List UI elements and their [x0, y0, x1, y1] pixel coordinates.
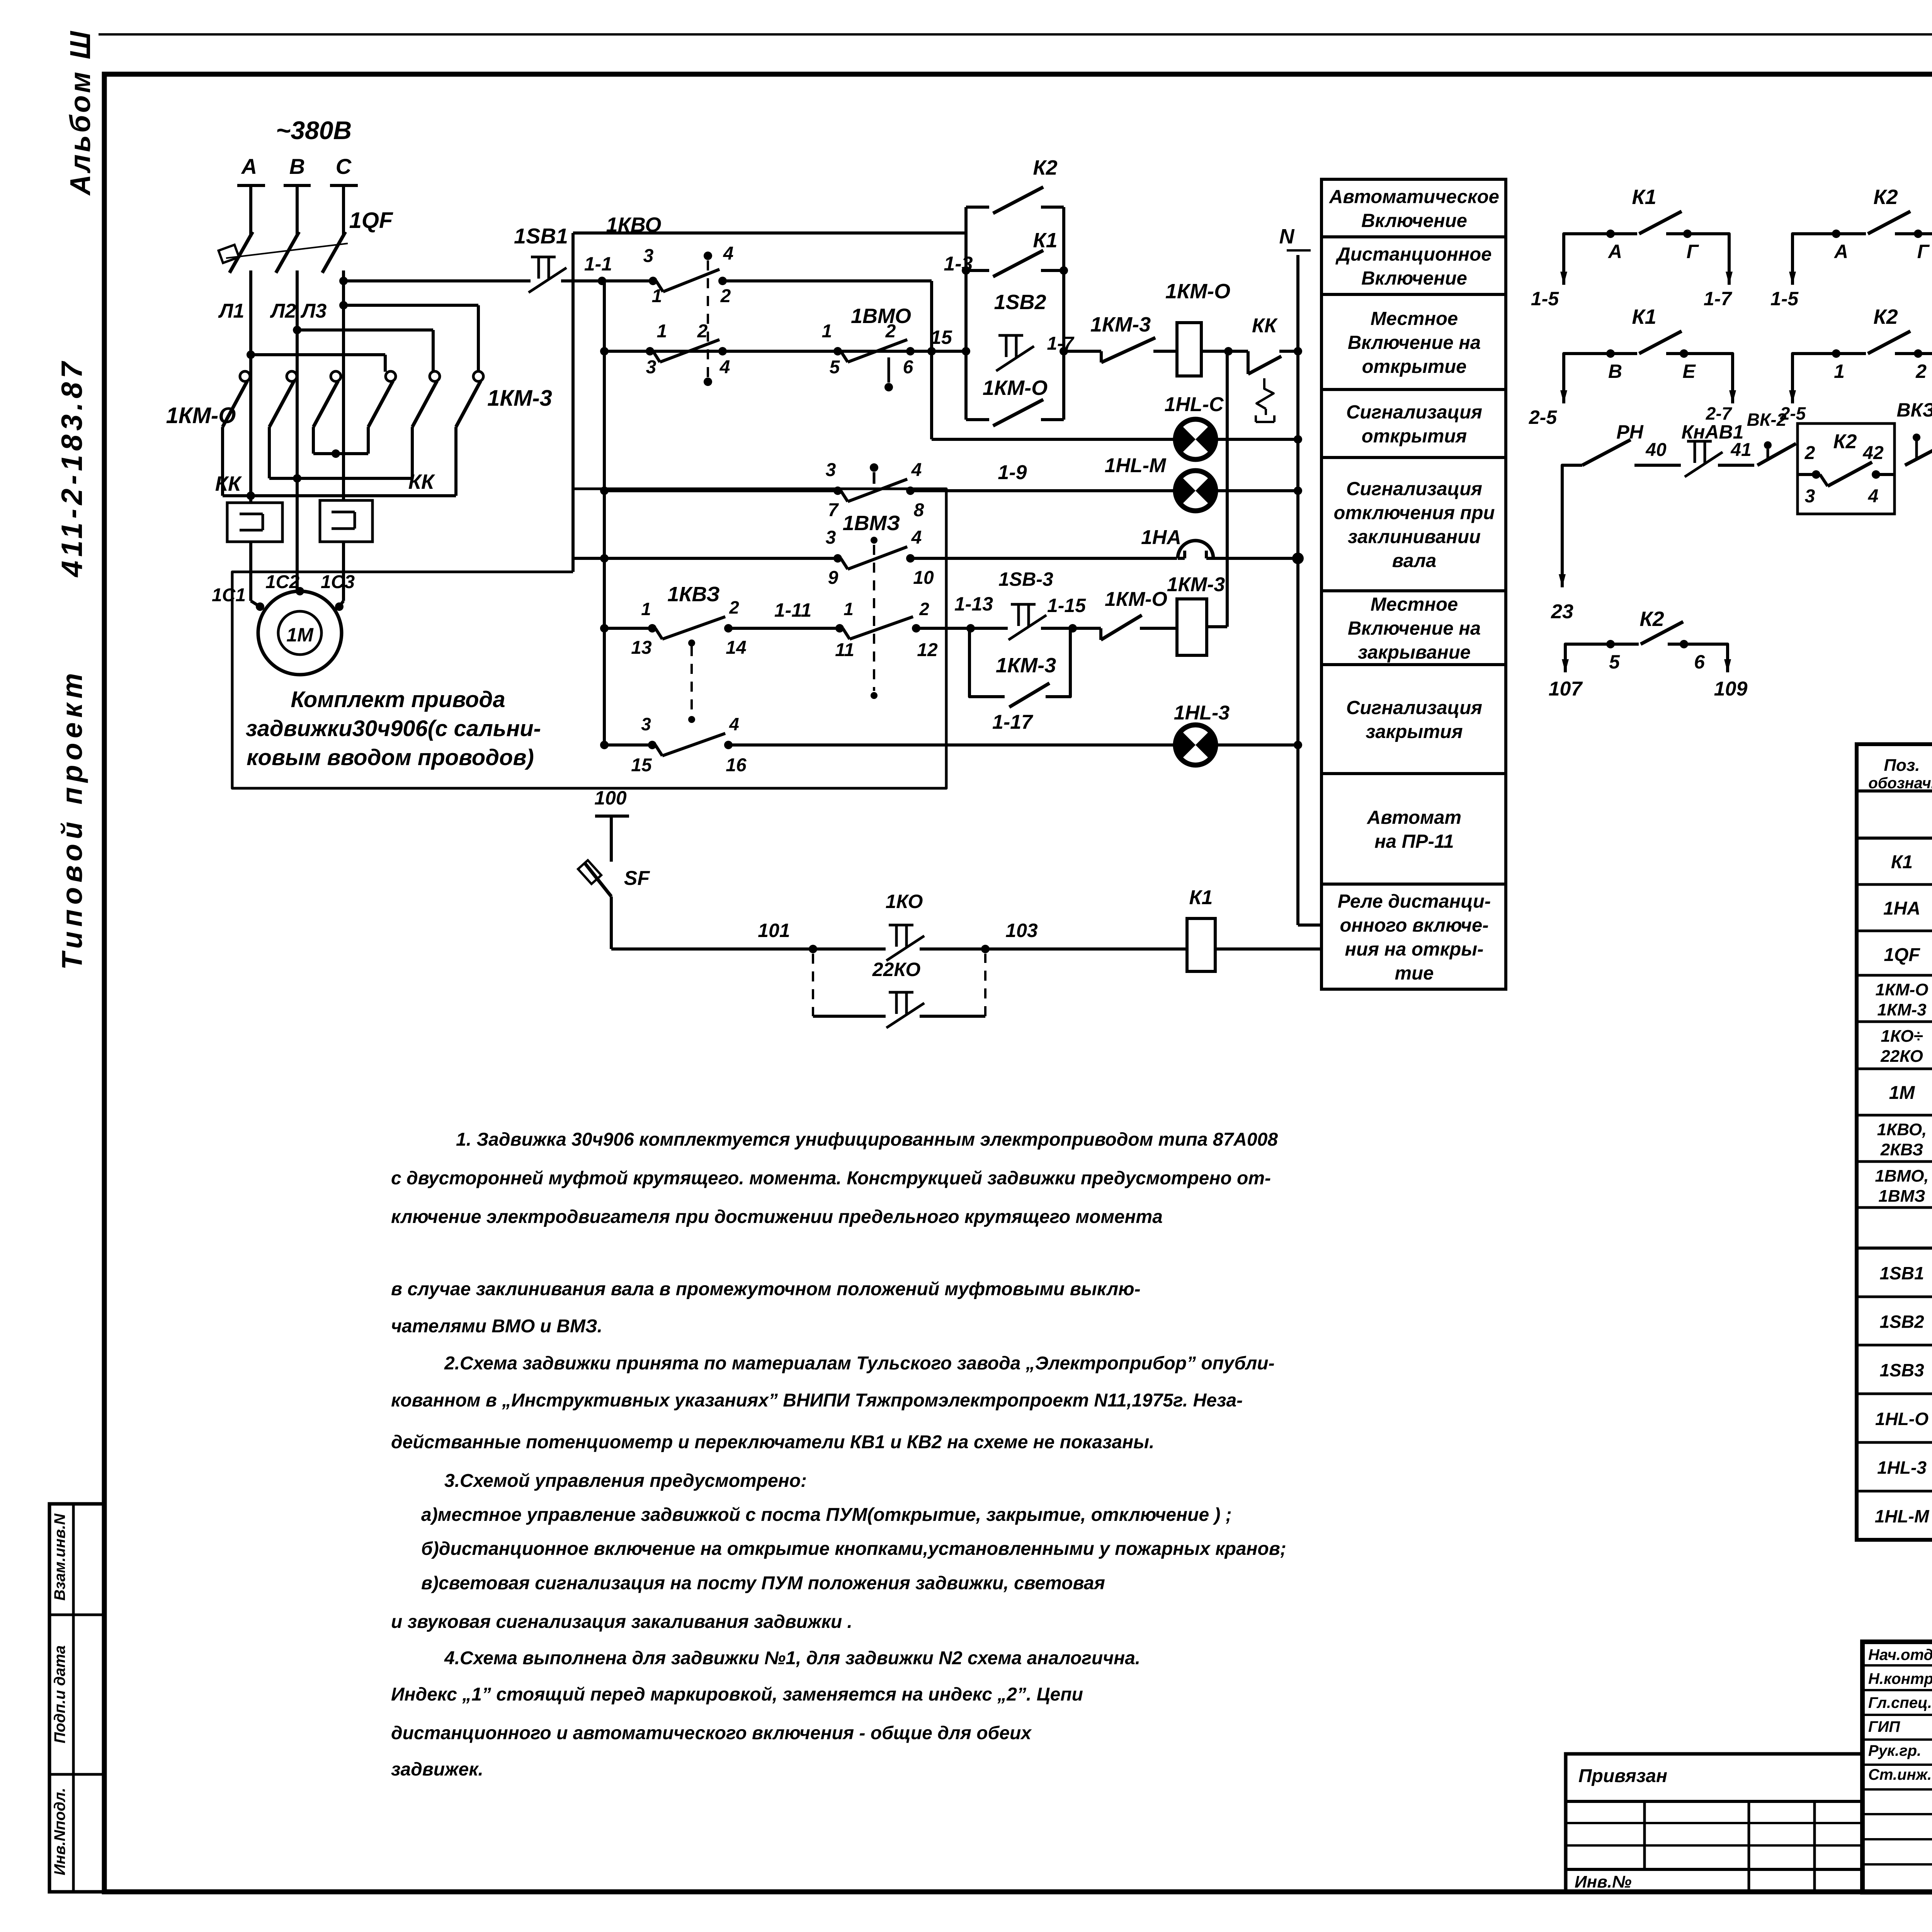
- element row К1: [1857, 883, 1932, 886]
- svg-text:23: 23: [1551, 600, 1573, 623]
- title block main frame: [1862, 1642, 1932, 1892]
- svg-text:Автомат: Автомат: [1367, 807, 1461, 828]
- element row 1ВМО,/1ВМЗ: [1857, 1206, 1932, 1209]
- svg-text:Взам.инв.N: Взам.инв.N: [51, 1513, 68, 1600]
- function column outer gutter: [1320, 179, 1323, 989]
- svg-text:Сигнализация: Сигнализация: [1346, 697, 1482, 718]
- bell 1HA: [1178, 541, 1213, 558]
- function box 7: Сигнализация закрытия: [1321, 665, 1506, 774]
- svg-text:1-5: 1-5: [1770, 288, 1799, 310]
- svg-text:К2: К2: [1033, 156, 1057, 179]
- svg-text:1М: 1М: [1889, 1083, 1915, 1103]
- svg-text:1КМ-О: 1КМ-О: [1875, 980, 1928, 999]
- svg-text:Включение на: Включение на: [1348, 332, 1481, 353]
- svg-text:411-2-183.87: 411-2-183.87: [56, 358, 88, 578]
- svg-text:1КМ-О: 1КМ-О: [1105, 588, 1167, 611]
- svg-text:101: 101: [758, 920, 790, 941]
- svg-text:2-7: 2-7: [1706, 403, 1733, 423]
- function box 4: Сигнализация открытия: [1321, 389, 1506, 457]
- svg-text:1С2: 1С2: [265, 572, 299, 592]
- svg-text:1-13: 1-13: [954, 593, 993, 615]
- control row 3 wire 1-9: [604, 489, 838, 492]
- svg-text:1ВМО: 1ВМО: [851, 304, 911, 328]
- svg-text:1HL-С: 1HL-С: [1164, 393, 1224, 416]
- svg-text:1КО: 1КО: [886, 891, 923, 912]
- svg-text:1HL-О: 1HL-О: [1875, 1409, 1929, 1429]
- fragment box K2 42: [1798, 423, 1895, 514]
- svg-text:13: 13: [631, 638, 652, 658]
- svg-text:3: 3: [1805, 486, 1815, 507]
- svg-text:Инв.Nподл.: Инв.Nподл.: [51, 1788, 68, 1876]
- svg-text:1: 1: [641, 599, 651, 619]
- svg-text:1SB3: 1SB3: [1879, 1360, 1924, 1380]
- phase crossover wire C: [344, 304, 478, 307]
- svg-text:1: 1: [652, 286, 662, 306]
- limit switch contact 1KVO 1-2: [646, 347, 654, 355]
- svg-text:2КВЗ: 2КВЗ: [1880, 1140, 1923, 1159]
- function box 8: Автомат на ПР-11: [1321, 774, 1506, 884]
- svg-text:Сигнализация: Сигнализация: [1346, 402, 1482, 423]
- svg-text:на ПР-11: на ПР-11: [1374, 831, 1454, 852]
- signal lamp 1HL-C: [1175, 419, 1216, 459]
- svg-text:1С1: 1С1: [212, 585, 246, 605]
- svg-text:а)местное управление задвижк: а)местное управление задвижкой с поста П…: [421, 1505, 1232, 1525]
- element list band Post upravleniya 1PUM: [1857, 1247, 1932, 1250]
- svg-text:1КВО,: 1КВО,: [1877, 1120, 1927, 1139]
- wire coil 1KM-3 right side up: [1207, 625, 1227, 628]
- svg-text:40: 40: [1645, 440, 1667, 460]
- svg-text:Рук.гр.: Рук.гр.: [1868, 1742, 1921, 1759]
- svg-text:1НА: 1НА: [1141, 526, 1181, 549]
- node 1-1: [598, 277, 606, 285]
- element row 1КМ-О/1КМ-3: [1857, 1020, 1932, 1023]
- element row 1SB3: [1857, 1393, 1932, 1395]
- element row 1КО÷/22КО: [1857, 1068, 1932, 1070]
- svg-text:б)дистанционное включение на: б)дистанционное включение на открытие кн…: [421, 1539, 1286, 1559]
- svg-text:12: 12: [917, 640, 938, 660]
- svg-text:1КО÷: 1КО÷: [1881, 1027, 1923, 1046]
- svg-text:15: 15: [631, 755, 652, 776]
- svg-text:задвижки30ч906(с сальни-: задвижки30ч906(с сальни-: [246, 716, 541, 741]
- svg-text:Е: Е: [1682, 361, 1696, 382]
- svg-text:Л1: Л1: [218, 300, 245, 322]
- svg-text:10: 10: [913, 568, 934, 588]
- parallel branch box K2 K1 1SB2 1KM-O: [964, 207, 968, 420]
- wire 1-11: [728, 627, 840, 630]
- svg-text:1HL-М: 1HL-М: [1105, 454, 1167, 477]
- wire K1 coil to column: [1215, 947, 1321, 951]
- svg-text:4: 4: [1868, 486, 1879, 507]
- svg-text:2: 2: [720, 286, 731, 306]
- svg-text:Инв.№: Инв.№: [1575, 1872, 1631, 1891]
- svg-text:задвижек.: задвижек.: [391, 1759, 483, 1780]
- function box 6: Местное Включение на закрывание: [1321, 591, 1506, 665]
- svg-text:3: 3: [643, 246, 654, 266]
- svg-text:закрытия: закрытия: [1366, 721, 1463, 742]
- sheet outer trim line top: [99, 33, 1932, 36]
- svg-text:1: 1: [822, 321, 832, 342]
- svg-text:Привязан: Привязан: [1578, 1766, 1667, 1786]
- svg-text:4: 4: [729, 714, 739, 734]
- svg-text:онного включе-: онного включе-: [1340, 915, 1488, 936]
- svg-text:В: В: [289, 154, 305, 179]
- function box 3: Местное Включение на открытие: [1321, 294, 1506, 389]
- svg-text:1ВМО,: 1ВМО,: [1875, 1167, 1929, 1185]
- side stamp row line 1: [49, 1614, 104, 1616]
- svg-text:А: А: [241, 154, 257, 179]
- thermal relay KK right: [320, 500, 372, 542]
- svg-text:1. Задвижка 30ч906 комплектует: 1. Задвижка 30ч906 комплектуется унифици…: [456, 1129, 1278, 1150]
- circuit breaker 1QF: [249, 229, 252, 236]
- svg-text:КК: КК: [408, 470, 435, 493]
- svg-text:1КМ-3: 1КМ-3: [1877, 1000, 1926, 1019]
- element list table frame: [1857, 744, 1932, 1540]
- svg-text:22КО: 22КО: [872, 959, 921, 980]
- 1VMO actuator link: [888, 357, 890, 383]
- 22KO branch right dashed: [920, 1015, 985, 1018]
- svg-text:КК: КК: [1252, 315, 1278, 337]
- side stamp box: [49, 1504, 104, 1892]
- svg-text:К2: К2: [1873, 185, 1898, 209]
- svg-text:Гл.спец.: Гл.спец.: [1868, 1694, 1932, 1711]
- svg-text:4: 4: [723, 243, 734, 264]
- contactor output links: [313, 452, 368, 455]
- svg-text:2: 2: [1804, 443, 1815, 463]
- svg-text:К1: К1: [1891, 852, 1913, 872]
- svg-text:9: 9: [828, 568, 838, 588]
- control row 6 wire 1-17: [604, 743, 652, 747]
- dashed link 1KVO: [704, 252, 712, 260]
- side stamp divider column: [72, 1504, 75, 1892]
- clutch switch contact 1VMO 3-4: [833, 486, 842, 495]
- svg-text:1SB2: 1SB2: [994, 291, 1046, 314]
- motor terminal 1C1: [256, 602, 264, 611]
- left control bus: [603, 281, 606, 745]
- clutch switch contact 1VMO: [833, 347, 842, 355]
- title block signature rows: [1862, 1664, 1932, 1667]
- svg-text:действанные потенциометр и п: действанные потенциометр и переключатели…: [391, 1432, 1154, 1452]
- svg-text:3: 3: [826, 527, 836, 548]
- svg-text:Комплект привода: Комплект привода: [291, 687, 505, 712]
- svg-text:SF: SF: [624, 867, 650, 889]
- wire KK left to motor: [249, 542, 252, 601]
- element list header row: [1857, 789, 1932, 793]
- svg-text:1КВЗ: 1КВЗ: [667, 583, 720, 606]
- svg-text:1: 1: [657, 321, 667, 342]
- svg-text:ния на откры-: ния на откры-: [1345, 939, 1484, 960]
- svg-text:8: 8: [914, 500, 924, 520]
- svg-text:Типовой проект: Типовой проект: [56, 668, 88, 970]
- svg-text:К1: К1: [1632, 305, 1656, 328]
- svg-text:2: 2: [697, 321, 708, 342]
- svg-text:3: 3: [826, 460, 836, 480]
- svg-text:Л3: Л3: [300, 300, 327, 322]
- svg-text:дистанционного и автоматичес: дистанционного и автоматического включен…: [391, 1723, 1032, 1743]
- svg-text:Включение: Включение: [1361, 268, 1467, 289]
- svg-text:6: 6: [903, 357, 913, 378]
- svg-text:обознач.: обознач.: [1868, 775, 1932, 792]
- svg-text:К2: К2: [1639, 607, 1664, 631]
- svg-text:С: С: [336, 154, 352, 179]
- svg-text:1НА: 1НА: [1883, 898, 1920, 919]
- svg-text:КК: КК: [215, 472, 242, 495]
- svg-text:Реле дистанци-: Реле дистанци-: [1338, 891, 1491, 912]
- svg-text:К1: К1: [1632, 185, 1656, 209]
- attachment grid: [1643, 1801, 1646, 1869]
- svg-text:1QF: 1QF: [1884, 945, 1920, 965]
- svg-text:Ст.инж.: Ст.инж.: [1868, 1766, 1932, 1783]
- KK actuator dashes: [1257, 378, 1274, 409]
- auto start contact K2: [966, 206, 989, 209]
- svg-text:в)световая сигнализация на: в)световая сигнализация на посту ПУМ пол…: [421, 1573, 1105, 1594]
- svg-text:15: 15: [930, 327, 952, 348]
- motor terminal 1C3: [335, 602, 344, 611]
- svg-text:~380В: ~380В: [276, 116, 352, 145]
- svg-text:3: 3: [646, 357, 656, 378]
- switch VK3: [1915, 440, 1918, 458]
- remote start contact K1: [966, 269, 989, 272]
- control row 5 wire: [604, 627, 652, 630]
- wire KK right to motor: [342, 542, 345, 601]
- svg-text:Сигнализация: Сигнализация: [1346, 479, 1482, 500]
- svg-text:Автоматическое: Автоматическое: [1329, 187, 1499, 207]
- svg-text:открытия: открытия: [1362, 426, 1467, 447]
- svg-text:1-17: 1-17: [992, 711, 1033, 733]
- svg-text:6: 6: [1694, 651, 1705, 673]
- svg-text:А: А: [1607, 241, 1622, 262]
- svg-text:чателями ВМО и ВМЗ.: чателями ВМО и ВМЗ.: [391, 1316, 602, 1337]
- wire 103: [920, 947, 1187, 951]
- svg-text:2.Схема задвижки принята по: 2.Схема задвижки принята по материалам Т…: [444, 1353, 1275, 1374]
- svg-text:1-5: 1-5: [1531, 288, 1559, 310]
- svg-text:Подп.и дата: Подп.и дата: [51, 1645, 68, 1743]
- svg-text:1SB1: 1SB1: [1879, 1263, 1924, 1283]
- svg-text:1ВМЗ: 1ВМЗ: [843, 512, 900, 535]
- svg-text:1КВО: 1КВО: [606, 213, 662, 236]
- svg-text:1КМ-О: 1КМ-О: [983, 376, 1048, 400]
- svg-text:К2: К2: [1833, 430, 1857, 453]
- svg-text:103: 103: [1005, 920, 1038, 941]
- svg-text:Поз.: Поз.: [1884, 756, 1920, 775]
- svg-text:5: 5: [1609, 651, 1620, 673]
- svg-text:100: 100: [594, 787, 627, 809]
- svg-text:3.Схемой управления предусм: 3.Схемой управления предусмотрено:: [444, 1471, 807, 1491]
- svg-text:1: 1: [1834, 361, 1845, 382]
- wire 101: [611, 947, 886, 951]
- element row 1М: [1857, 1114, 1932, 1117]
- 1VM3 actuator dashed link: [871, 537, 878, 544]
- signal lamp 1HL-3: [1175, 725, 1216, 765]
- svg-text:1SB1: 1SB1: [514, 224, 568, 248]
- svg-text:1КМ-3: 1КМ-3: [487, 386, 552, 411]
- svg-text:1-11: 1-11: [774, 599, 811, 621]
- attachment band Privyazan: [1566, 1800, 1862, 1803]
- control row 1 wire 1-3: [723, 279, 932, 282]
- svg-text:вала: вала: [1392, 551, 1437, 571]
- control row 4 wire: [573, 557, 838, 560]
- svg-text:с двусторонней муфтой крутяще: с двусторонней муфтой крутящего. момента…: [391, 1168, 1271, 1189]
- svg-text:1С3: 1С3: [321, 572, 355, 592]
- svg-text:1КМ-3: 1КМ-3: [1090, 313, 1151, 336]
- wire 1-3 down to row 2: [930, 281, 933, 351]
- enclosure riser: [571, 233, 575, 572]
- svg-text:1-15: 1-15: [1047, 595, 1086, 616]
- wire phase B below 1QF: [296, 270, 299, 591]
- svg-text:4.Схема выполнена для задви: 4.Схема выполнена для задвижки №1, для з…: [444, 1648, 1140, 1668]
- svg-text:11: 11: [835, 640, 854, 660]
- svg-text:ВКЗ: ВКЗ: [1897, 399, 1932, 421]
- svg-text:1SB2: 1SB2: [1879, 1312, 1924, 1332]
- svg-text:Г: Г: [1917, 241, 1930, 262]
- svg-text:1КМ-О: 1КМ-О: [166, 403, 236, 428]
- pushbutton 1SB2: [998, 334, 1023, 337]
- svg-text:107: 107: [1549, 678, 1583, 700]
- wire 12 to 1-13: [916, 627, 1008, 630]
- drive set boundary box: [232, 489, 946, 788]
- svg-text:2: 2: [1915, 361, 1927, 382]
- limit switch contact 1KVO 3-4: [649, 277, 657, 285]
- coil 1KM-3: [1177, 599, 1207, 655]
- coil 1KM-O: [1177, 323, 1201, 376]
- wire from row2 down to lamp row: [930, 351, 933, 439]
- 1VMO 3-4 actuator dot: [873, 472, 876, 484]
- element row 1QF: [1857, 974, 1932, 977]
- wire 1-15: [1041, 627, 1101, 630]
- clutch switch contact 1VM3 1-2: [835, 624, 844, 633]
- svg-text:1-1: 1-1: [584, 253, 612, 275]
- svg-text:42: 42: [1862, 443, 1884, 463]
- element row 1НА: [1857, 930, 1932, 932]
- contactor 1KM-O poles: [240, 371, 250, 381]
- svg-text:1-9: 1-9: [998, 461, 1027, 484]
- limit switch contact 1KV3 1-2: [648, 624, 656, 633]
- interlock contact 1KM-O row5: [1099, 628, 1102, 640]
- svg-text:Альбом Ш: Альбом Ш: [64, 29, 96, 196]
- parallel seal-in 1KM-3 branch: [969, 628, 1005, 697]
- svg-text:1КМ-3: 1КМ-3: [996, 654, 1056, 677]
- svg-text:ВК-2: ВК-2: [1747, 410, 1787, 430]
- interlock contact 1KM-3: [1100, 351, 1103, 362]
- svg-text:14: 14: [726, 638, 746, 658]
- svg-text:22КО: 22КО: [1880, 1047, 1923, 1066]
- svg-text:1-7: 1-7: [1704, 288, 1732, 310]
- wire phase A below 1QF: [249, 270, 252, 503]
- svg-text:4: 4: [911, 527, 922, 548]
- wire row2 to interlock: [1064, 350, 1101, 353]
- element row 1SB2: [1857, 1344, 1932, 1347]
- svg-text:отключения при: отключения при: [1334, 503, 1495, 524]
- contactor 1KM-3 poles: [386, 371, 396, 381]
- relay coil K1: [1187, 918, 1215, 971]
- svg-text:Местное: Местное: [1371, 594, 1458, 615]
- svg-text:Г: Г: [1687, 241, 1699, 262]
- element row 1SB1: [1857, 1296, 1932, 1298]
- svg-text:Нач.отд.: Нач.отд.: [1868, 1646, 1932, 1663]
- pushbutton 1SB-3: [1011, 603, 1036, 606]
- svg-text:1КМ-О: 1КМ-О: [1165, 280, 1230, 303]
- pushbutton 22KO: [889, 991, 913, 994]
- seal-in contact 1KM-O: [966, 418, 989, 421]
- svg-text:заклинивании: заклинивании: [1348, 527, 1481, 548]
- svg-text:К2: К2: [1873, 305, 1898, 328]
- disconnect switch SF: [584, 862, 611, 896]
- function box 5: Сигнализация отключения при заклинивании вала: [1321, 457, 1506, 591]
- svg-text:1КМ-3: 1КМ-3: [1167, 573, 1225, 596]
- svg-text:ковым вводом проводов): ковым вводом проводов): [247, 745, 534, 770]
- phase crossover wire B: [297, 328, 433, 332]
- side stamp row line 2: [49, 1773, 104, 1776]
- svg-text:1SB-3: 1SB-3: [998, 568, 1053, 590]
- limit switch contact 1KV3 3-4 row6: [648, 741, 656, 749]
- thermal contact KK in control: [1247, 351, 1250, 374]
- svg-text:А: А: [1833, 241, 1848, 262]
- motor 1M: [258, 591, 342, 675]
- control row 2 wire: [604, 350, 966, 353]
- thermal relay KK left: [227, 503, 282, 542]
- svg-text:1QF: 1QF: [349, 208, 393, 233]
- svg-text:2: 2: [885, 321, 896, 342]
- enclosure top wire: [573, 231, 966, 235]
- wire phase C below 1QF: [342, 270, 345, 500]
- svg-text:2: 2: [729, 597, 739, 617]
- svg-text:109: 109: [1714, 678, 1748, 700]
- pushbutton 1SB1: [531, 256, 556, 259]
- svg-text:закрывание: закрывание: [1358, 642, 1471, 663]
- function box 1: Автоматическое Включение: [1321, 179, 1506, 237]
- element list band Apparatura po mestu: [1857, 837, 1932, 840]
- svg-text:2: 2: [919, 599, 929, 619]
- svg-text:в случае заклинивания вала: в случае заклинивания вала в промежуточн…: [391, 1279, 1141, 1299]
- svg-text:Л2: Л2: [270, 300, 296, 322]
- svg-text:16: 16: [726, 755, 747, 776]
- pushbutton 1KO: [889, 924, 913, 927]
- svg-text:ГИП: ГИП: [1868, 1718, 1900, 1735]
- svg-text:1ВМЗ: 1ВМЗ: [1878, 1187, 1925, 1206]
- element row 1HL-О: [1857, 1441, 1932, 1444]
- svg-text:К1: К1: [1033, 229, 1057, 252]
- svg-text:7: 7: [828, 500, 839, 520]
- svg-text:4: 4: [911, 460, 922, 480]
- element row 1КВО,/2КВЗ: [1857, 1160, 1932, 1163]
- phase crossover wire A: [251, 353, 385, 356]
- function box 9: Реле дистанци- онного включе- ния на откры- тие: [1321, 884, 1506, 989]
- svg-text:1HL-3: 1HL-3: [1174, 702, 1230, 724]
- function box 2: Дистанционное Включение: [1321, 237, 1506, 294]
- svg-text:В: В: [1608, 361, 1622, 382]
- svg-text:1HL-М: 1HL-М: [1875, 1506, 1930, 1526]
- neutral bus N: [1296, 255, 1299, 925]
- row 2 junctions at branch box: [962, 347, 970, 355]
- wire to control circuit from phase C: [344, 279, 531, 282]
- svg-text:кованном в „Инструктивных ук: кованном в „Инструктивных указаниях” ВНИ…: [391, 1390, 1243, 1411]
- svg-text:К1: К1: [1189, 886, 1213, 909]
- svg-text:и звуковая сигнализация зак: и звуковая сигнализация закаливания задв…: [391, 1612, 852, 1632]
- motor terminal 1C2: [296, 587, 304, 595]
- svg-text:1: 1: [844, 599, 854, 619]
- parallel 22KO dashed branch: [812, 954, 814, 1016]
- svg-text:3: 3: [641, 714, 651, 734]
- svg-text:5: 5: [830, 357, 840, 378]
- svg-text:Включение на: Включение на: [1348, 618, 1481, 639]
- svg-text:Индекс „1” стоящий перед мар: Индекс „1” стоящий перед маркировкой, за…: [391, 1684, 1083, 1705]
- wire SF down: [610, 896, 613, 949]
- signal lamp 1HL-M: [1175, 471, 1216, 511]
- dashed link 1KV3: [690, 646, 693, 716]
- svg-text:Местное: Местное: [1371, 308, 1458, 329]
- svg-text:Включение: Включение: [1361, 211, 1467, 231]
- attachment block: [1566, 1754, 1862, 1892]
- svg-text:открытие: открытие: [1362, 356, 1467, 377]
